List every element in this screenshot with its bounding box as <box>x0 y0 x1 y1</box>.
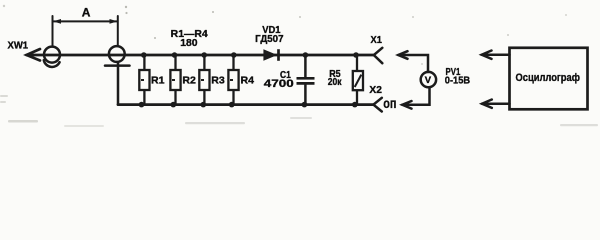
svg-text:Осциллограф: Осциллограф <box>516 72 581 84</box>
svg-text:20к: 20к <box>328 77 343 88</box>
junction R5 top <box>353 52 359 58</box>
svg-text:A: A <box>82 6 91 20</box>
svg-text:R1: R1 <box>151 76 165 87</box>
wire: bottom rail to X2 <box>118 103 374 106</box>
resistor R3 <box>199 55 209 105</box>
terminal X1 fork <box>374 48 383 63</box>
coax tee connector circle <box>109 46 125 62</box>
connector XW1 shield arc <box>44 60 60 67</box>
junction R1 bottom <box>139 102 145 108</box>
dimension arrowhead right <box>110 19 118 24</box>
junction R2 top <box>172 52 178 58</box>
junction R4 bottom <box>229 102 235 108</box>
svg-text:180: 180 <box>180 37 197 49</box>
connector XW1 plug arrow <box>27 49 41 61</box>
svg-text:ГД507: ГД507 <box>255 34 284 45</box>
svg-text:R3: R3 <box>211 76 225 87</box>
junction R4 top <box>231 52 237 58</box>
resistor R1 <box>139 55 149 105</box>
svg-text:X1: X1 <box>371 34 383 46</box>
junction R3 top <box>201 52 207 58</box>
wire: oscilloscope top input arrow <box>482 51 510 59</box>
resistor R2 <box>170 55 180 105</box>
wire: PV1 bottom probe arrow to оп <box>402 87 429 108</box>
resistor R4 <box>228 55 238 105</box>
diode VD1 <box>263 49 278 61</box>
resistor R5 <box>353 55 363 105</box>
junction R5 bottom <box>352 102 358 108</box>
wire: top rail from XW1 to X1 <box>27 54 375 57</box>
coax tee shield bar <box>105 64 130 67</box>
svg-text:R2: R2 <box>182 76 196 87</box>
voltmeter PV1 <box>421 72 436 87</box>
connector XW1 circle <box>44 47 60 63</box>
capacitor C1 <box>297 55 315 105</box>
dimension extension line left <box>52 16 54 46</box>
junction C1 bottom <box>302 102 308 108</box>
svg-text:V: V <box>425 75 432 86</box>
wire: tee stem down to bottom rail <box>117 63 120 105</box>
dimension line A <box>53 20 118 22</box>
svg-text:XW1: XW1 <box>8 39 29 51</box>
wire: PV1 top probe arrow to X1 <box>398 51 428 72</box>
junction R3 bottom <box>201 102 207 108</box>
terminal X2 fork <box>373 98 381 112</box>
svg-text:4700: 4700 <box>264 78 294 90</box>
dimension arrowhead left <box>53 19 61 24</box>
junction C1 top <box>303 52 309 58</box>
junction R1 top <box>141 52 147 58</box>
junction R2 bottom <box>171 102 177 108</box>
svg-text:оп: оп <box>383 95 396 111</box>
svg-text:X2: X2 <box>369 85 382 96</box>
oscilloscope box <box>510 48 588 110</box>
svg-text:R4: R4 <box>241 76 255 87</box>
svg-text:0-15В: 0-15В <box>445 76 470 87</box>
dimension extension line right <box>117 16 119 46</box>
wire: oscilloscope bottom input arrow <box>482 100 510 108</box>
